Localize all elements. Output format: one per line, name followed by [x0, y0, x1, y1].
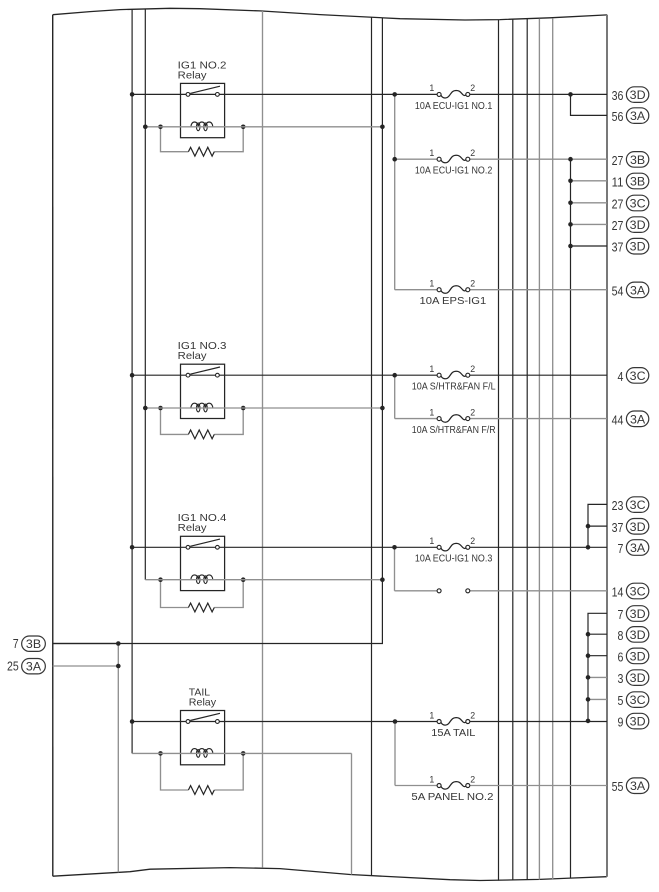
fuse SPARE [437, 589, 470, 593]
bus wire from terminal 27-3B junction down to page bottom [570, 159, 572, 878]
terminal 7 3D (right edge) [618, 606, 649, 622]
svg-text:37: 37 [612, 520, 624, 535]
wire branch bus to fuse ECU-IG1 NO.2 [395, 158, 438, 160]
svg-text:2: 2 [470, 774, 475, 784]
wire fuse ECU-IG1 NO.2 output to terminal 27-3B [470, 158, 607, 160]
svg-text:8: 8 [618, 628, 624, 643]
wire fuse ECU-IG1 NO.3 output to terminal 7-3A [470, 546, 607, 548]
branch wire: F/L fuse row down to F/R fuse [394, 375, 396, 418]
svg-text:3A: 3A [630, 283, 646, 297]
node: branch junction feeding spare slot [392, 545, 397, 550]
svg-text:2: 2 [470, 83, 475, 93]
node: stub junction 3-3D [586, 675, 591, 680]
svg-text:2: 2 [470, 364, 475, 374]
relay TAIL: coil symbol [191, 749, 213, 754]
svg-text:2: 2 [470, 536, 475, 546]
terminal 37 3D (right edge) [588, 519, 649, 535]
svg-text:3D: 3D [630, 628, 646, 642]
wire spare fuse slot output to terminal 14-3C [470, 590, 607, 592]
node: resistor taps on coil wire of IG1 NO.4 [158, 577, 163, 582]
resistor of IG1 NO.3 (zigzag) [188, 430, 214, 439]
wire fuse S/HTR&amp;FAN F/L output to terminal 4-3C [470, 374, 607, 376]
pass-through bus wire x=513 [512, 19, 514, 880]
node: resistor taps on coil wire of IG1 NO.2 [158, 125, 163, 130]
node: stub junction 6-3D [586, 653, 591, 658]
fuse F2 [415, 148, 493, 177]
relay IG1 NO.2: switch blade [190, 86, 220, 93]
svg-text:3C: 3C [630, 693, 646, 707]
terminal 36 3D (right edge) [612, 87, 649, 103]
page outline left border [52, 15, 54, 877]
wire terminal 36-3D branch to terminal 56-3A [571, 94, 608, 115]
svg-text:27: 27 [612, 218, 624, 233]
node: resistor taps on coil wire of TAIL [158, 751, 163, 756]
node: coil junction IG1 NO.3 on bus x=145 [143, 406, 148, 411]
terminal 27 3D (right edge) [571, 217, 649, 233]
svg-text:3B: 3B [630, 175, 645, 189]
relay IG1 NO.4: switch blade [190, 539, 220, 546]
terminal 7 3A (right edge) [618, 540, 649, 556]
fuse F7 [429, 710, 475, 739]
terminal 3 3D (right edge) [588, 670, 649, 686]
svg-text:2: 2 [470, 148, 475, 158]
svg-text:5A PANEL NO.2: 5A PANEL NO.2 [411, 792, 493, 803]
terminal 44 3A (right edge) [612, 411, 649, 427]
relay IG1 NO.4: coil symbol [191, 575, 213, 580]
svg-text:7: 7 [13, 636, 19, 651]
svg-text:3A: 3A [630, 109, 646, 123]
terminal 8 3D (right edge) [588, 627, 649, 643]
pass-through bus wire x=527 [526, 19, 528, 880]
svg-text:5: 5 [618, 693, 624, 708]
relay TAIL: title label [189, 687, 217, 708]
terminal 27 3B (right edge) [612, 152, 649, 168]
page outline right border [606, 15, 608, 877]
relay IG1 NO.3: coil symbol [191, 403, 213, 408]
terminal 6 3D (right edge) [588, 648, 649, 664]
svg-text:3A: 3A [26, 660, 42, 674]
node: coil junction IG1 NO.3 on bus x=382 [380, 406, 385, 411]
terminal 37 3D (right edge) [571, 238, 649, 254]
terminal 27 3C (right edge) [571, 195, 649, 211]
svg-text:1: 1 [429, 83, 434, 93]
node: switch feed junction of IG1 NO.2 on bus x=132 [130, 92, 135, 97]
svg-text:27: 27 [612, 197, 624, 212]
relay TAIL: switch wire from coil bus to fuse row [132, 721, 437, 723]
svg-text:3D: 3D [630, 520, 646, 534]
relay IG1 NO.4: title label [178, 513, 227, 534]
svg-text:10A S/HTR&FAN F/L: 10A S/HTR&FAN F/L [412, 382, 496, 393]
svg-text:2: 2 [470, 407, 475, 417]
pass-through bus wire x=371 [371, 17, 373, 875]
wire fuse S/HTR&amp;FAN F/R output to terminal 44-3A [470, 418, 607, 420]
node: coil junction IG1 NO.4 on bus x=382 [380, 577, 385, 582]
svg-text:10A ECU-IG1 NO.3: 10A ECU-IG1 NO.3 [415, 554, 493, 565]
svg-text:Relay: Relay [189, 697, 217, 708]
resistor of IG1 NO.4 (zigzag) [188, 603, 214, 612]
svg-text:3D: 3D [630, 218, 646, 232]
resistor of IG1 NO.2 (zigzag) [188, 147, 214, 156]
fuse F3 [420, 279, 487, 308]
fuse F8 [411, 774, 493, 803]
relay IG1 NO.2: coil symbol [191, 122, 213, 127]
relay TAIL: switch blade [190, 713, 220, 720]
node: stub junction 27-3D [568, 222, 573, 227]
wire coil of TAIL relay (elbow from bus x=132 to drop at x=351) [132, 752, 351, 754]
bus wire feeding relay switches (IG1 NO.2/NO.3/NO.4, TAIL) [131, 9, 133, 753]
svg-text:3D: 3D [630, 240, 646, 254]
wire fuse EPS-IG1 output to terminal 54-3A [470, 289, 607, 291]
wire coil of IG1 NO.3 from coil bus to 7-3B bus [145, 407, 382, 409]
svg-text:10A ECU-IG1 NO.2: 10A ECU-IG1 NO.2 [415, 166, 493, 177]
wire TAIL relay coil drop to page bottom [351, 753, 353, 874]
terminal 55 3A (right edge) [612, 778, 649, 794]
relay IG1 NO.4: outline box [181, 536, 225, 590]
svg-text:10A S/HTR&FAN F/R: 10A S/HTR&FAN F/R [412, 425, 496, 436]
svg-text:54: 54 [612, 283, 624, 298]
relay IG1 NO.2: outline box [181, 83, 225, 137]
bus wire feeding relay coils (IG1 NO.2/NO.3/NO.4) [144, 9, 146, 580]
svg-text:Relay: Relay [178, 351, 208, 362]
node: switch feed junction of IG1 NO.4 on bus x=132 [130, 545, 135, 550]
node: junction 7-3A cluster [586, 545, 591, 550]
terminal 54 3A (right edge) [612, 282, 649, 298]
pass-through bus wire x=498 [498, 20, 500, 881]
wire coil of IG1 NO.4 (elbow from coil bus x=145) [145, 579, 382, 581]
svg-text:3: 3 [618, 671, 624, 686]
svg-text:56: 56 [612, 109, 624, 124]
svg-text:1: 1 [429, 279, 434, 289]
svg-text:2: 2 [470, 279, 475, 289]
relay TAIL: switch contact circles [186, 720, 190, 724]
node: stub junction 37-3D [568, 244, 573, 249]
relay IG1 NO.4: resistor loop wires [161, 580, 189, 608]
svg-text:2: 2 [470, 710, 475, 720]
relay IG1 NO.4: switch contact circles [186, 545, 190, 549]
node: stub junction 37-3D (cluster) [586, 524, 591, 529]
svg-text:3D: 3D [630, 649, 646, 663]
relay IG1 NO.3: title label [178, 341, 227, 362]
relay IG1 NO.3: outline box [181, 364, 225, 418]
page outline top edge [53, 8, 608, 20]
svg-text:36: 36 [612, 88, 624, 103]
node: coil junction IG1 NO.2 on bus x=145 [143, 125, 148, 130]
wire branch elbow to fuse S/HTR&amp;FAN F/R [395, 418, 438, 420]
svg-text:3D: 3D [630, 715, 646, 729]
svg-text:55: 55 [612, 779, 624, 794]
branch wire: fuse row 1 down to EPS-IG1 fuse [394, 94, 396, 289]
page outline bottom edge [53, 868, 607, 881]
node: stub junction 11-3B [568, 179, 573, 184]
terminal 9 3D (right edge) [618, 713, 649, 729]
svg-text:1: 1 [429, 710, 434, 720]
wire branch elbow to fuse EPS-IG1 [395, 289, 438, 291]
wire fuse 15A TAIL output to terminal 9-3D [470, 721, 607, 723]
relay IG1 NO.3: resistor loop wires [161, 408, 189, 434]
svg-text:3B: 3B [630, 153, 645, 167]
svg-text:23: 23 [612, 498, 624, 513]
fuse F6 [415, 536, 493, 565]
branch wire: ECU-IG1 NO.3 row down to spare fuse slot [394, 547, 396, 591]
bus wire to left terminal 7-3B (vertical part, elbow at y=643.5) [53, 18, 383, 644]
svg-text:7: 7 [618, 607, 624, 622]
relay IG1 NO.2: switch contact circles [186, 93, 190, 97]
node: branch junction feeding PANEL fuse [393, 719, 398, 724]
terminal 4 3C (right edge) [618, 368, 649, 384]
relay IG1 NO.3: switch contact circles [186, 373, 190, 377]
svg-text:9: 9 [618, 715, 624, 730]
svg-text:4: 4 [618, 369, 624, 384]
pass-through bus wire x=539 [538, 19, 540, 880]
wire cluster 23-3C/37-3D down to 7-3A row [588, 504, 607, 547]
left terminal 7 3B with wire to bus elbow [13, 636, 119, 651]
svg-text:3A: 3A [630, 412, 646, 426]
node: resistor taps on coil wire of IG1 NO.3 [158, 406, 163, 411]
relay IG1 NO.2: title label [178, 60, 227, 81]
svg-text:3A: 3A [630, 779, 646, 793]
node: stub junction 8-3D [586, 632, 591, 637]
svg-text:Relay: Relay [178, 70, 208, 81]
fuse F5 [412, 407, 496, 436]
svg-text:14: 14 [612, 585, 624, 600]
node: stub junction 5-3C [586, 697, 591, 702]
svg-text:37: 37 [612, 240, 624, 255]
branch wire: TAIL fuse row down to PANEL NO.2 fuse [394, 722, 396, 786]
node: switch feed junction of TAIL on bus x=132 [130, 719, 135, 724]
node: coil junction IG1 NO.2 on bus x=382 [380, 125, 385, 130]
svg-text:3D: 3D [630, 88, 646, 102]
svg-text:1: 1 [429, 536, 434, 546]
node: junction 9-3D cluster [586, 719, 591, 724]
wire branch elbow to spare fuse slot [395, 590, 438, 592]
node: junction 25-3A wire / down bus [116, 664, 121, 669]
bus wire from node 7-3B/25-3A down to page bottom [117, 644, 119, 873]
svg-text:10A ECU-IG1 NO.1: 10A ECU-IG1 NO.1 [415, 101, 493, 112]
svg-text:10A EPS-IG1: 10A EPS-IG1 [420, 296, 487, 307]
svg-text:3D: 3D [630, 671, 646, 685]
terminal 23 3C (right edge) [612, 497, 649, 513]
left terminal 25 3A with wire [7, 659, 118, 674]
pass-through bus wire x=262 [262, 11, 264, 868]
relay IG1 NO.3: switch blade [190, 367, 220, 374]
relay IG1 NO.2: switch wire from coil bus to fuse row [132, 93, 437, 95]
node: stub junction 27-3C [568, 201, 573, 206]
fuse F4 [412, 364, 496, 393]
terminal 5 3C (right edge) [588, 692, 649, 708]
svg-text:1: 1 [429, 407, 434, 417]
wire fuse PANEL NO.2 output to terminal 55-3A [470, 785, 607, 787]
node: junction 7-3B wire / down bus [116, 641, 121, 646]
node: fuse ECU-IG1 NO.2 feed junction [392, 157, 397, 162]
svg-text:11: 11 [612, 175, 624, 190]
relay TAIL: outline box [181, 711, 225, 765]
svg-text:1: 1 [429, 364, 434, 374]
fuse F1 [415, 83, 493, 112]
svg-text:15A TAIL: 15A TAIL [431, 728, 476, 739]
svg-text:6: 6 [618, 649, 624, 664]
svg-text:3C: 3C [630, 585, 646, 599]
svg-text:1: 1 [429, 148, 434, 158]
wire cluster 7-3D..5-3C down to 9-3D row [588, 613, 607, 721]
node: junction to 56-3A branch [568, 92, 573, 97]
relay IG1 NO.2: resistor loop wires [161, 127, 189, 152]
svg-text:44: 44 [612, 412, 624, 427]
node: switch feed junction of IG1 NO.3 on bus x=132 [130, 373, 135, 378]
svg-text:27: 27 [612, 153, 624, 168]
svg-text:3B: 3B [26, 637, 41, 651]
svg-text:1: 1 [429, 774, 434, 784]
node: branch junction feeding F/R fuse [392, 373, 397, 378]
svg-text:Relay: Relay [178, 523, 208, 534]
relay IG1 NO.3: switch wire from coil bus to fuse row [132, 374, 437, 376]
wire coil of IG1 NO.2 from coil bus to 7-3B bus [145, 126, 382, 128]
svg-text:3D: 3D [630, 607, 646, 621]
node: branch junction on row 1 feeding lower fuses [392, 92, 397, 97]
svg-text:3C: 3C [630, 197, 646, 211]
resistor of TAIL (zigzag) [188, 786, 214, 795]
svg-text:3A: 3A [630, 541, 646, 555]
svg-text:7: 7 [618, 541, 624, 556]
relay TAIL: resistor loop wires [161, 753, 189, 790]
node: junction 27-3B chain [568, 157, 573, 162]
wire fuse ECU-IG1 NO.1 output to terminal 36-3D [470, 93, 607, 95]
svg-text:3C: 3C [630, 369, 646, 383]
pass-through bus wire x=553 [552, 18, 554, 879]
terminal 14 3C (right edge) [612, 583, 649, 599]
svg-text:3C: 3C [630, 498, 646, 512]
svg-text:25: 25 [7, 659, 19, 674]
terminal 56 3A (right edge) [612, 108, 649, 124]
relay IG1 NO.4: switch wire from coil bus to fuse row [132, 546, 437, 548]
wire branch elbow to fuse PANEL NO.2 [395, 785, 437, 787]
terminal 11 3B (right edge) [571, 173, 649, 189]
